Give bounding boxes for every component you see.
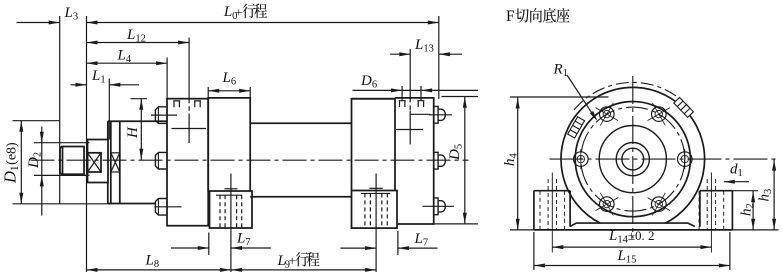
dim L13 leads [390,53,410,55]
svg-text:h3: h3 [757,189,775,202]
swing radius arc R1 [574,82,690,110]
flange plate verticals [110,121,112,203]
R1 leader [567,75,593,114]
svg-text:h4: h4 [502,153,520,167]
gland bottom line [108,203,156,205]
ext L1 right [108,79,110,140]
rod nut washer [88,140,109,183]
bolt hole 120deg [596,103,619,126]
vertical centerline [632,76,634,239]
svg-text:L7: L7 [414,231,429,249]
dim L6 [208,90,250,92]
right foot inner edge [699,191,701,227]
left foot inner edge [569,191,571,227]
end cap block4 [395,98,434,224]
gland left face lower [107,183,109,204]
ext L4 right [166,58,168,99]
nut centerline bottom left [155,206,182,208]
port2 cross horizontal [396,129,423,131]
rod bore circle [622,148,644,170]
head block3 [352,98,396,191]
right foot top [700,190,733,192]
ext L7 left foot edge [208,233,210,256]
port2 depth line [411,113,431,115]
right foot hole centerline [710,173,712,253]
left foot hole centerline [230,174,232,273]
rod tip thread relief line [62,147,64,175]
tie-rod nut top right [434,106,446,123]
bolt hole 300deg [648,193,671,216]
svg-text:D1(e8): D1(e8) [1,142,22,184]
ext L0 right [438,16,440,99]
ext L12 right [188,38,190,99]
left foot hole dashed [548,179,556,230]
rod tip block [60,147,84,175]
port1 cross horizontal [172,128,207,130]
seal box A [88,153,102,172]
svg-text:d1: d1 [730,162,743,180]
dim L15 [534,265,730,267]
svg-text:L13: L13 [414,37,434,55]
right foot hole dashed [707,179,715,230]
ext L13 left [409,49,411,98]
boss circle [616,143,649,176]
horizontal centerline [550,158,779,160]
base bottom [534,229,733,231]
port2 hidden center [409,98,411,111]
svg-text:L15: L15 [617,248,637,266]
port1 hidden center [188,99,190,114]
svg-text:L6: L6 [222,70,237,88]
ext base bottom right [732,229,778,231]
nut centerline top left [151,114,177,116]
ext L7 right foot edge [397,231,399,255]
dim h3 [773,159,775,230]
seal box A cross [88,153,102,172]
svg-text:L1: L1 [91,68,106,86]
right foot pad [352,191,398,229]
dim L12 [87,42,190,44]
right foot hole centerline [375,174,377,273]
svg-text:L3: L3 [64,5,79,23]
base left edge [533,191,535,230]
pilot circle [599,126,666,193]
dim L8 L9 [87,269,377,271]
svg-text:D6: D6 [360,73,377,91]
ext D5 top [442,96,479,98]
ext D2 top [34,142,90,144]
left foot pad [210,191,253,228]
ext rod face [59,16,61,204]
svg-text:H: H [125,126,141,139]
dim H [140,99,142,160]
svg-text:R1: R1 [553,62,568,80]
svg-text:F: F [506,8,515,25]
tie-rod nut bottom right [434,198,446,215]
ext D1 bottom [13,203,113,205]
left foot top [534,190,570,192]
right foot recess [361,192,390,194]
dim L1 leads [71,84,87,86]
dim D5 [464,97,466,224]
ext base bottom left [510,229,534,231]
svg-text:h2: h2 [739,203,757,216]
dim h4 [517,97,519,230]
bolt hole 180deg [574,149,589,169]
left foot hole dashed [220,195,242,228]
svg-text:+: + [235,5,242,20]
svg-text:L12: L12 [126,27,146,45]
seal box B [111,153,120,172]
tie-rod nut bottom left [155,199,167,216]
ext L15 left [533,232,535,270]
tie-rod nut mid right [434,152,446,169]
knurled nut tab right [674,97,694,117]
svg-text:D2: D2 [26,152,44,169]
bolt circle [581,107,685,211]
ext h4 top [510,96,609,98]
port2 thread mark right [417,101,424,107]
port1 thread mark right [194,101,201,107]
ext h2 top [732,190,758,192]
relief line [570,223,695,226]
port2 thread mark left [399,101,406,107]
dim D2 [41,127,43,216]
nut centerline bottom right [423,205,455,207]
dim d1 lead [724,181,749,183]
left foot hole centerline [551,173,553,253]
feet hidden holes [540,173,724,253]
seal box B cross [111,153,120,172]
dim L7 right leads [341,247,377,249]
left foot recess [216,194,242,196]
cylinder tube bottom [250,196,351,198]
gland top line [108,120,167,122]
port1 cross vertical [188,114,190,144]
knurled nut tab left [568,117,585,138]
svg-text:D5: D5 [447,144,465,161]
svg-text:L7: L7 [236,231,251,249]
head block2 [208,98,250,191]
arrowheads right view [516,98,776,268]
arrowheads left view [19,21,467,272]
dim L7 left leads [171,247,209,249]
dim L4 [87,62,168,64]
ext H top tick [131,98,148,100]
dim D6 [353,89,479,91]
flange circle [575,102,690,217]
main centerline [31,159,469,161]
port2 cross vertical [409,111,411,145]
svg-text:L4: L4 [117,48,132,66]
bolt hole 240deg [596,193,619,216]
ext D1 top [13,120,61,122]
svg-text:L: L [223,4,232,20]
outer rim circle [561,87,705,223]
svg-text:L8: L8 [145,253,160,271]
right foot hole dashed [365,193,387,228]
ext mounting face [86,16,88,272]
gland left face upper [107,121,109,139]
ext D6 [401,86,403,101]
ext D2 bottom [34,174,90,176]
dim L0 [87,22,439,24]
svg-text:+: + [289,253,296,268]
bolt hole 60deg [648,103,671,126]
dim D1 [20,121,22,204]
port1 thread mark left [173,101,180,107]
tie-rod nut top left [155,107,167,124]
rear head block1 [167,99,208,226]
base right edge [731,191,733,230]
svg-text:L14±0. 2: L14±0. 2 [608,228,654,246]
ext D5 bottom [435,223,479,225]
dim h2 [752,191,754,230]
ext L15 right [729,232,731,270]
bolt hole 0deg [678,149,693,169]
dim L3 lead [17,22,60,24]
nut centerline top right [429,114,452,116]
dim L14 [552,246,711,248]
tie-rod nut mid left [155,152,167,169]
cylinder tube top [250,122,351,124]
